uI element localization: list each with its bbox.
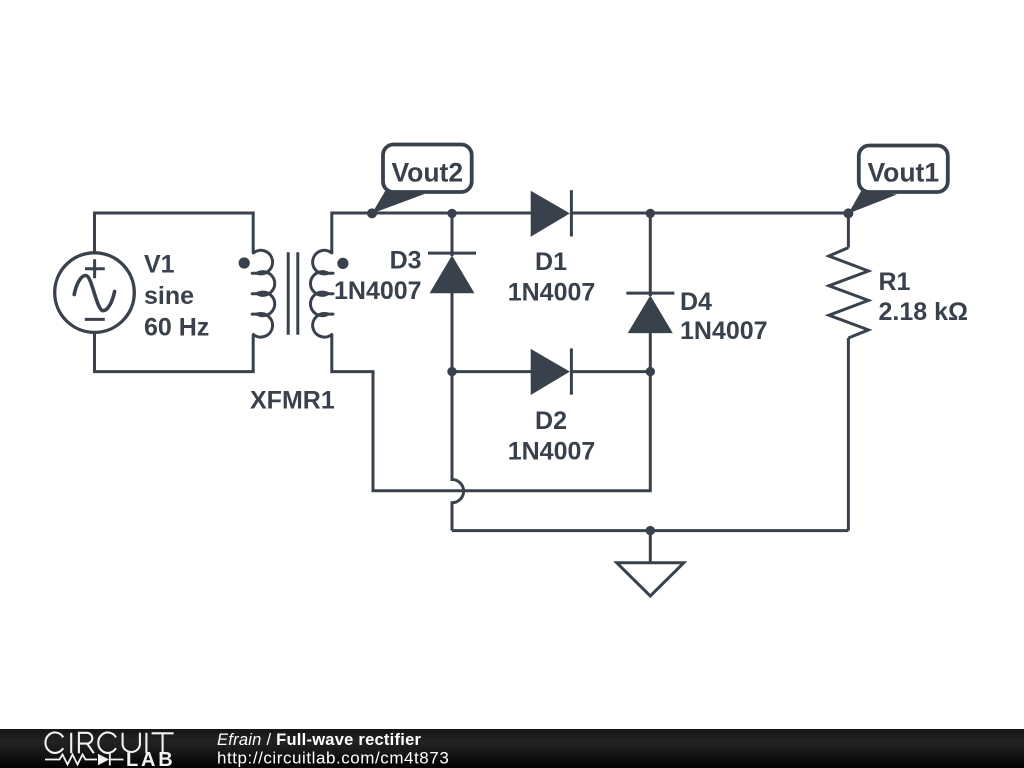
junction ground rail [646, 526, 655, 535]
svg-text:1N4007: 1N4007 [680, 317, 768, 345]
label D3 [334, 247, 422, 306]
svg-text:R1: R1 [879, 268, 911, 296]
svg-text:D4: D4 [680, 288, 712, 316]
wire V1 top loop to primary [95, 213, 254, 253]
svg-text:Vout1: Vout1 [867, 157, 939, 187]
wire secondary top to D1 anode [332, 213, 531, 253]
svg-text:D2: D2 [535, 407, 567, 435]
transformer XFMR1 secondary winding [310, 250, 333, 337]
wire secondary bottom jog to D4 bottom [332, 335, 651, 491]
diode D3 [428, 253, 476, 293]
wire D3 top lead [451, 213, 454, 256]
svg-text:1N4007: 1N4007 [508, 437, 596, 465]
svg-text:Efrain / Full-wave rectifier: Efrain / Full-wave rectifier [217, 731, 422, 749]
svg-text:XFMR1: XFMR1 [250, 387, 335, 415]
diode D1 [531, 190, 571, 236]
label R1 value [879, 268, 969, 326]
label D1 [508, 248, 596, 306]
junction D2 row left [447, 367, 456, 376]
diode D4 [626, 293, 674, 333]
wire D4 top lead [649, 213, 652, 296]
node Vout1 flag [848, 146, 947, 214]
transformer XFMR1 primary winding [252, 250, 275, 337]
node Vout2 flag [372, 145, 472, 214]
svg-text:1N4007: 1N4007 [508, 278, 596, 306]
junction top Vout2 [367, 208, 377, 218]
wire ground rail [452, 529, 848, 532]
wire D4 anode to D2 row [649, 333, 652, 372]
junction D3 top [447, 209, 456, 218]
wire D3 column down with hop over mid wire [452, 372, 464, 531]
svg-text:1N4007: 1N4007 [334, 277, 422, 305]
svg-text:D3: D3 [390, 247, 422, 275]
svg-text:60 Hz: 60 Hz [144, 313, 209, 341]
transformer XFMR1 secondary dot [337, 258, 348, 269]
wire D2 row left [452, 370, 531, 373]
transformer XFMR1 core [288, 252, 298, 334]
junction D4 top [646, 209, 655, 218]
svg-text:D1: D1 [535, 248, 567, 276]
diode D2 [531, 348, 571, 394]
svg-text:http://circuitlab.com/cm4t873: http://circuitlab.com/cm4t873 [217, 749, 449, 768]
wire D3 anode to D2 row [451, 293, 454, 372]
junction D2 row right [646, 367, 655, 376]
ground [617, 531, 684, 596]
wire R1 top lead [847, 213, 850, 248]
svg-text:2.18 kΩ: 2.18 kΩ [879, 298, 969, 326]
transformer XFMR1 primary dot [239, 257, 250, 268]
CircuitLab logo [45, 733, 176, 768]
wire R1 bottom lead [847, 338, 850, 531]
voltage source V1 [55, 253, 135, 333]
label D4 [680, 288, 768, 345]
wire D2 cathode to D4 column [571, 370, 650, 373]
footer bar [0, 729, 1024, 768]
footer caption [217, 731, 449, 768]
svg-text:LAB: LAB [126, 749, 176, 768]
svg-text:Vout2: Vout2 [391, 157, 463, 187]
label D2 [508, 407, 596, 465]
wire D1 cathode to Vout1 [571, 212, 848, 215]
svg-text:V1: V1 [144, 251, 175, 279]
junction Vout1 [843, 208, 853, 218]
wire V1 bottom loop to primary [95, 332, 254, 371]
svg-text:sine: sine [144, 282, 194, 310]
label V1 value [144, 251, 209, 342]
resistor R1 [829, 248, 869, 338]
